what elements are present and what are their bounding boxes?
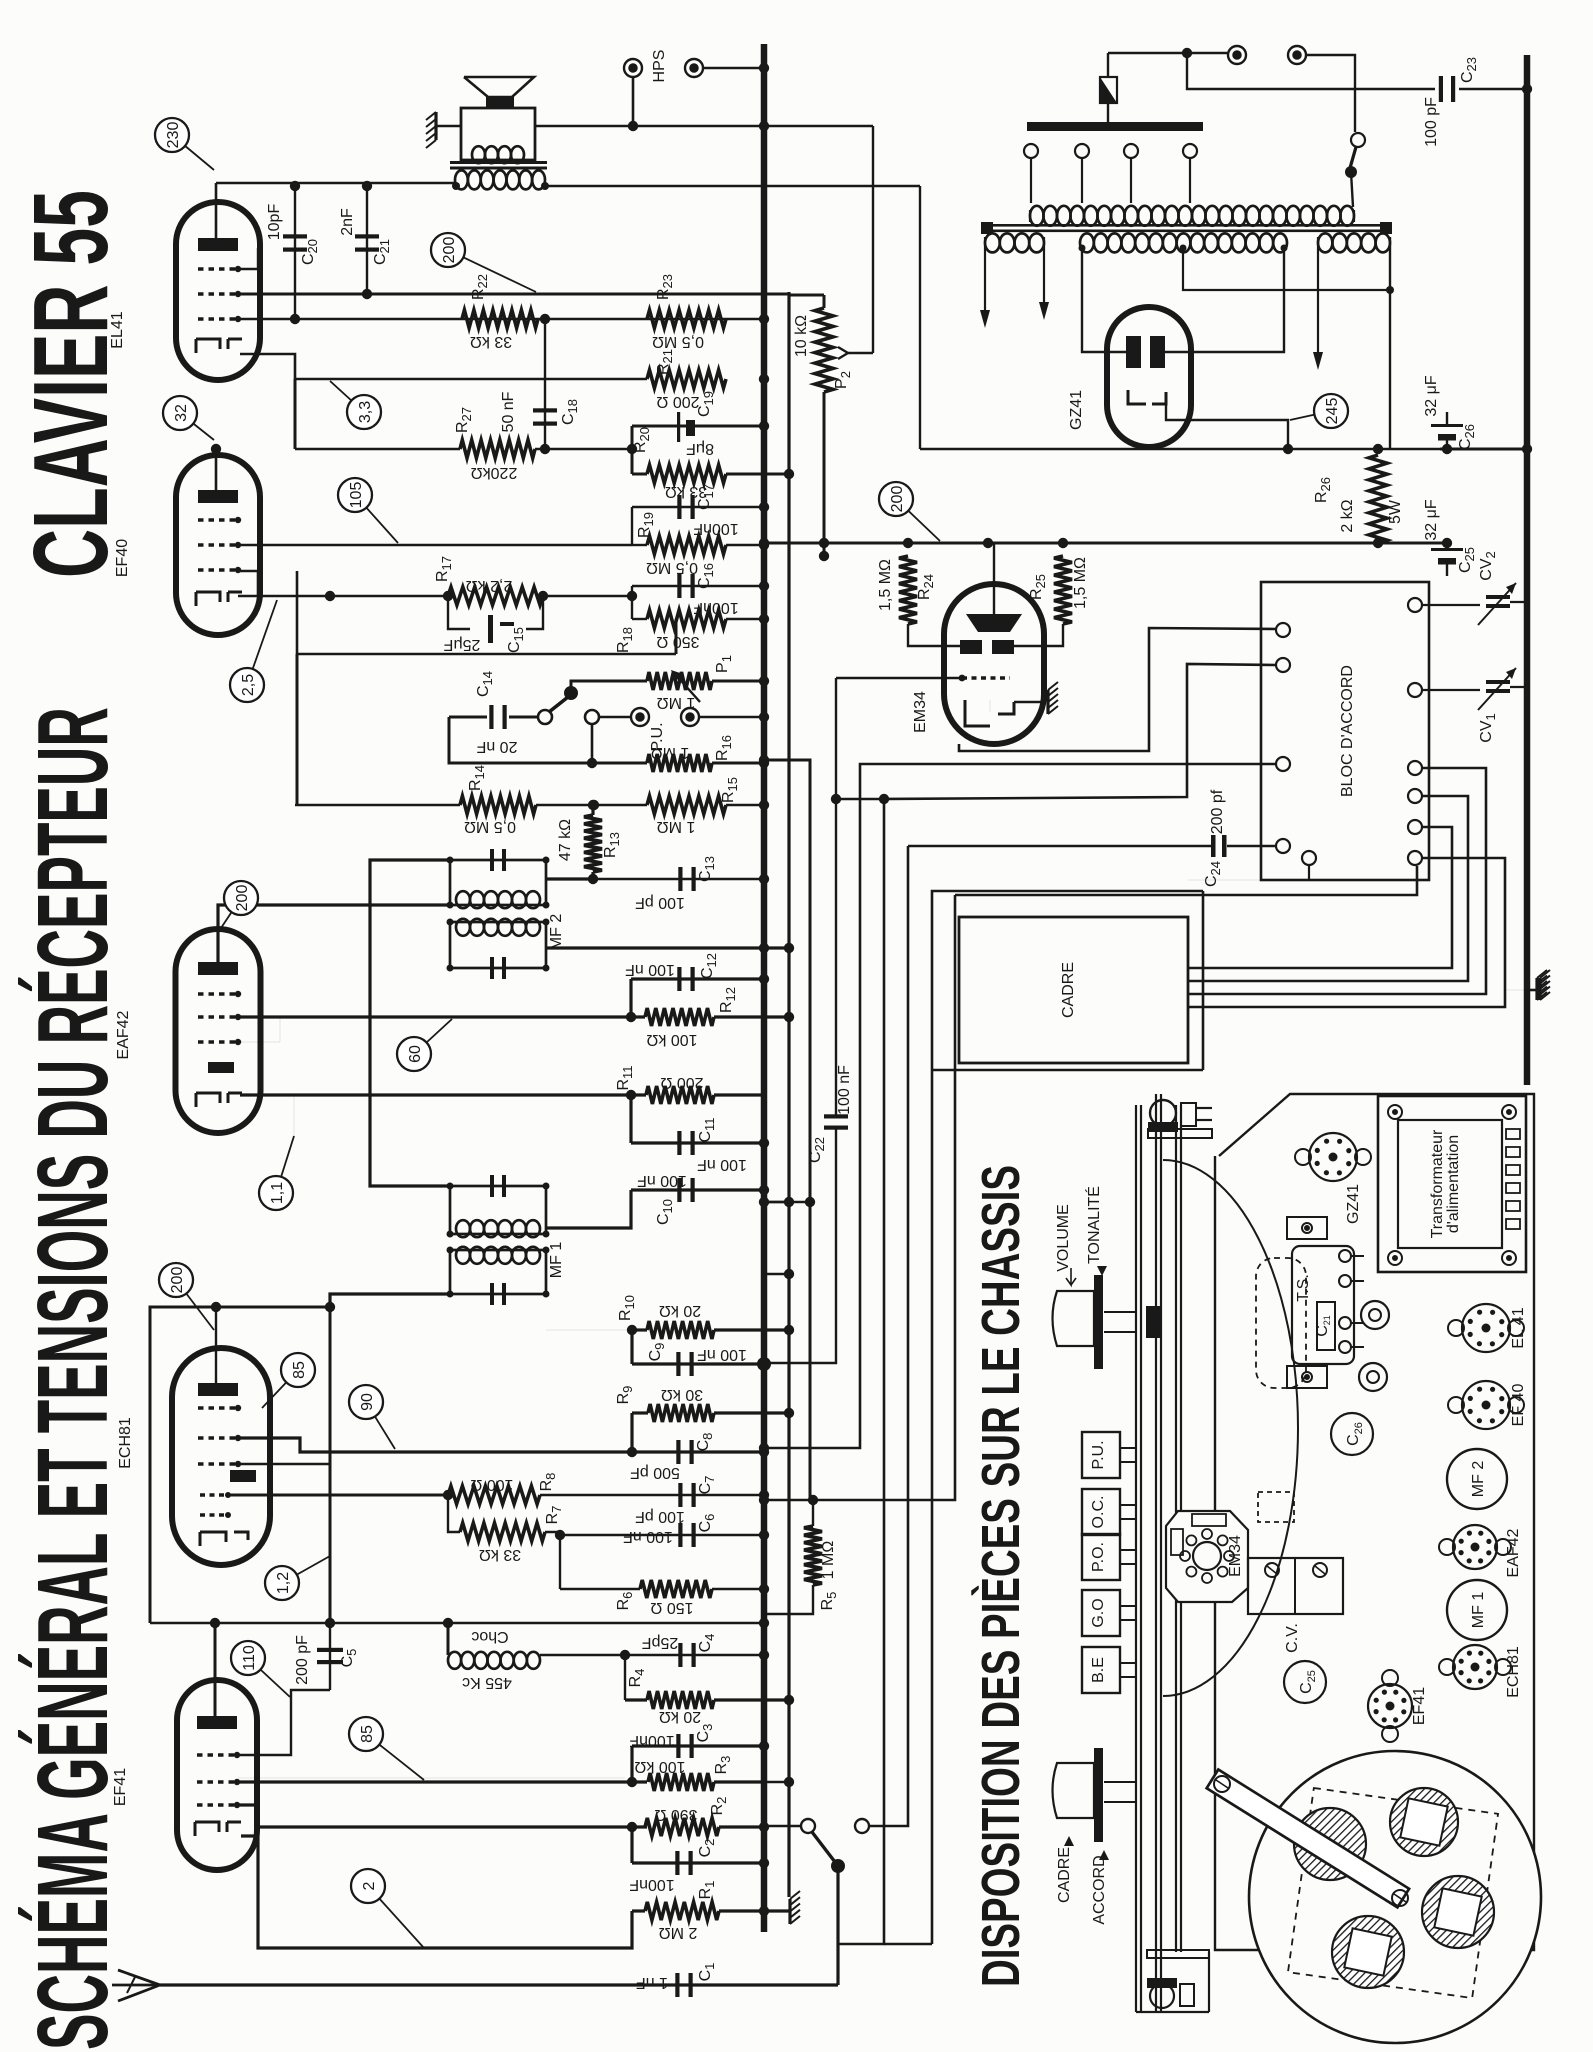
svg-text:2,5: 2,5 [240, 674, 257, 696]
svg-text:50 nF: 50 nF [500, 391, 517, 432]
svg-text:455 Kc: 455 Kc [462, 1674, 512, 1691]
wire HPS row [535, 121, 873, 131]
svg-text:20 kΩ: 20 kΩ [659, 1302, 701, 1319]
wire bundle E [869, 846, 908, 1826]
label EM34 chassis [1227, 1535, 1244, 1577]
transformer MF2 secondary [447, 919, 550, 980]
svg-text:200: 200 [169, 1267, 186, 1294]
wire cathode row [295, 374, 769, 384]
label CV chassis [1284, 1623, 1301, 1653]
ground speaker [426, 112, 461, 148]
wire bundle C [836, 664, 1276, 1944]
speaker dashed square [1288, 1788, 1498, 1998]
wire R27 row [295, 448, 632, 451]
chassis rail 3 [1176, 1105, 1181, 1952]
box bloc accord [1261, 582, 1429, 880]
button O.C. [1082, 1489, 1136, 1535]
wire ECH81 g row [238, 1463, 330, 1466]
svg-text:390 Ω: 390 Ω [654, 1806, 697, 1823]
wire R15 row [589, 800, 769, 810]
svg-text:350 Ω: 350 Ω [656, 633, 699, 650]
voltage 3,3 [330, 381, 381, 429]
voltage 200 ech [159, 1263, 214, 1330]
capacitor C3 [629, 1724, 769, 1758]
wire MF2 tap [546, 877, 593, 880]
resistor R6 [560, 1580, 769, 1616]
svg-text:90: 90 [359, 1393, 376, 1411]
svg-text:200: 200 [889, 486, 906, 513]
wire box R20 [627, 421, 794, 479]
antenna [112, 1970, 160, 2001]
svg-text:0,5 MΩ: 0,5 MΩ [464, 818, 516, 835]
svg-text:d'alimentation: d'alimentation [1445, 1135, 1462, 1233]
plate EM34 chassis [1166, 1511, 1248, 1602]
svg-text:GZ41: GZ41 [1068, 390, 1085, 430]
resistor R15 [647, 777, 740, 835]
terminal bloc R2 [1408, 683, 1422, 697]
voltage 200 eaf [221, 881, 258, 928]
wire bundle B [759, 755, 815, 1498]
wire bloc bottom [1188, 879, 1309, 881]
wire cadre outer [884, 891, 1203, 1944]
wire EF40 screen row [297, 571, 676, 654]
svg-text:245: 245 [1324, 398, 1341, 425]
wire EF41 g2 row [238, 1777, 625, 1779]
label EL41 [109, 311, 126, 348]
resistor R4 [625, 1669, 794, 1725]
transformer sec heater [985, 233, 1044, 252]
svg-text:110: 110 [241, 1645, 258, 1671]
voltage 60 [397, 1019, 452, 1071]
transformer core [981, 222, 1392, 234]
label EAF42 [115, 1010, 132, 1059]
svg-text:32: 32 [173, 404, 190, 422]
voltage 2 [351, 1869, 424, 1948]
wire EL41 g3 [236, 248, 258, 269]
capacitor C6 [560, 1514, 769, 1547]
svg-text:B.E: B.E [1090, 1657, 1107, 1683]
svg-text:2: 2 [361, 1881, 378, 1890]
wire GZ41 cathode [1166, 392, 1288, 449]
wire mains right [1187, 53, 1384, 89]
svg-text:1,5 MΩ: 1,5 MΩ [877, 559, 894, 611]
svg-text:100 kΩ: 100 kΩ [634, 1758, 685, 1775]
svg-text:MF 2: MF 2 [1470, 1461, 1487, 1498]
svg-text:T.S.: T.S. [1295, 1274, 1312, 1302]
wire cadre out2 [1188, 796, 1468, 981]
voltage 2,5 [230, 600, 277, 702]
svg-text:200 Ω: 200 Ω [656, 393, 699, 410]
svg-text:47 kΩ: 47 kΩ [557, 819, 574, 861]
wire box R19 [632, 502, 769, 550]
resistor R18 [615, 610, 726, 653]
wire MF2 prim left [218, 905, 450, 962]
transformer selector bar [1027, 122, 1203, 131]
capacitor C22 [759, 1114, 848, 1368]
box transfo alim [1378, 1096, 1526, 1272]
wire EF41 g3 row [238, 1805, 258, 1827]
svg-text:200 Ω: 200 Ω [660, 1074, 703, 1091]
label CV2 [1478, 551, 1498, 580]
circle C25 chassis [1284, 1661, 1326, 1703]
transformer MF1 primary [447, 1175, 550, 1238]
label EF41b [112, 1768, 129, 1806]
tube GZ41 heater [1128, 390, 1166, 404]
chassis rail 2 [1156, 1094, 1161, 2012]
svg-text:EAF42: EAF42 [1505, 1528, 1522, 1577]
terminal bloc R3 [1408, 761, 1422, 775]
svg-text:EM34: EM34 [912, 691, 929, 733]
title main 2 [11, 190, 130, 578]
resistor R26 [1313, 455, 1404, 543]
svg-text:100 nF: 100 nF [697, 1346, 747, 1363]
dial plate dashed [1256, 1258, 1306, 1388]
terminal bloc R1 [1408, 598, 1422, 612]
wire C3 drop [630, 1746, 633, 1782]
button P.U. [1082, 1432, 1136, 1478]
svg-text:Transformateur: Transformateur [1429, 1129, 1446, 1238]
svg-text:O.C.: O.C. [1090, 1496, 1107, 1529]
tube EAF42 internals [196, 962, 242, 1107]
svg-text:105: 105 [348, 482, 365, 509]
capacitor CV1 [1422, 668, 1527, 710]
capacitor C2 [629, 1827, 769, 1893]
resistor R19 [636, 512, 726, 576]
svg-text:33 kΩ: 33 kΩ [470, 333, 512, 350]
terminal bloc L1 [1276, 623, 1290, 637]
capacitor C1 [636, 1963, 717, 1997]
capacitor C16 [677, 563, 738, 616]
wire wiper riser [872, 126, 874, 353]
svg-text:MF 1: MF 1 [548, 1242, 565, 1279]
capacitor C24 [908, 789, 1276, 887]
chassis outline [1215, 1094, 1534, 1950]
svg-text:2,2 kΩ: 2,2 kΩ [466, 577, 513, 594]
wire cadre out4 [1188, 858, 1505, 1007]
svg-text:8μF: 8μF [686, 440, 714, 457]
label MF1 [548, 1242, 565, 1279]
wire row 1623 [150, 1618, 769, 1628]
label volume [1055, 1204, 1076, 1285]
wire R3 row [238, 1777, 647, 1787]
capacitor C25 [1431, 543, 1463, 576]
tube EAF42 diode [208, 1062, 234, 1073]
voltage 1,2 [265, 1556, 330, 1600]
label EF40 [114, 539, 131, 577]
OT primary [452, 170, 549, 190]
svg-text:TONALITÉ: TONALITÉ [1084, 1186, 1103, 1264]
voltage 32 [163, 396, 214, 440]
svg-text:1 MΩ: 1 MΩ [820, 1541, 837, 1580]
mains switch sel [1306, 55, 1365, 207]
label C22 [807, 1065, 853, 1163]
svg-text:DISPOSITION DES PIÈCES SUR LE: DISPOSITION DES PIÈCES SUR LE CHASSIS [971, 1165, 1031, 1987]
svg-text:ECH81: ECH81 [1505, 1646, 1522, 1698]
wire GZ41 anode right [1165, 248, 1284, 352]
label GZ41 chassis [1345, 1184, 1362, 1224]
label HPS [651, 50, 668, 83]
ground symbol bottom [764, 1197, 800, 1924]
label ECH81 [117, 1417, 134, 1469]
terminal bloc R4 [1408, 789, 1422, 803]
button P.O. [1082, 1534, 1136, 1580]
label CV1 [1478, 713, 1498, 742]
resistor R11 [240, 1065, 764, 1104]
wire R8 row [228, 1490, 453, 1500]
svg-text:20 nF: 20 nF [476, 738, 517, 755]
label cadre [1060, 962, 1077, 1018]
wire left col drop1 [296, 654, 299, 805]
capacitor C15 [443, 615, 526, 653]
arrow heater 2 [1039, 248, 1049, 320]
wire switch drop [836, 1866, 839, 1985]
socket EL41 chassis [1448, 1304, 1527, 1352]
svg-text:200 pf: 200 pf [1209, 789, 1226, 834]
can MF2 [1447, 1449, 1507, 1509]
svg-text:MF 1: MF 1 [1470, 1592, 1487, 1629]
svg-text:CADRE: CADRE [1060, 962, 1077, 1018]
voice coil [472, 146, 524, 163]
wire GZ41 anode left [1082, 248, 1126, 352]
wire PU drop [591, 724, 594, 763]
wire P1 left [671, 670, 700, 702]
svg-text:500 pF: 500 pF [630, 1464, 680, 1481]
voltage 85 ef41 [349, 1717, 424, 1780]
speaker cone [464, 77, 534, 108]
speaker frame [461, 108, 535, 160]
wire C5 to g1 [238, 1690, 330, 1755]
svg-text:200: 200 [234, 885, 251, 912]
dial lamp top [1148, 1100, 1212, 1138]
inductor choke [448, 1623, 625, 1691]
capacitor C4 [625, 1634, 769, 1667]
box CV chassis [1248, 1492, 1343, 1614]
wire EF40 cath row [238, 591, 632, 601]
wire R23R21 right [726, 318, 764, 320]
resistor R10 [617, 1295, 789, 1339]
svg-text:2 MΩ: 2 MΩ [659, 1924, 698, 1941]
svg-text:EL 41: EL 41 [1510, 1307, 1527, 1348]
transformer MF2 primary [447, 849, 550, 909]
tube ECH81 anode2 [230, 1470, 256, 1482]
fuse [1100, 48, 1228, 123]
svg-text:CADRE: CADRE [1056, 1847, 1073, 1903]
svg-text:20 kΩ: 20 kΩ [659, 1708, 701, 1725]
tube GZ41 [1107, 307, 1191, 447]
wire 200 row [759, 538, 1440, 548]
capacitor C14 [449, 705, 538, 729]
capacitor C7 [540, 1476, 769, 1525]
title chassis [971, 1165, 1031, 1987]
wire box R18 [627, 581, 769, 624]
svg-text:100 pF: 100 pF [1423, 97, 1440, 147]
capacitor C20 [283, 181, 307, 319]
capacitor C23 [1384, 57, 1532, 147]
wire P1 drop [675, 619, 678, 654]
can MF1 [1447, 1580, 1507, 1640]
wire row 449 [920, 444, 1440, 454]
transfo tabs [1506, 1129, 1520, 1229]
svg-text:0,5 MΩ: 0,5 MΩ [652, 333, 704, 350]
bracket TS [1287, 1217, 1354, 1388]
capacitor C9 [632, 1330, 771, 1376]
tube EAF42 [176, 929, 261, 1133]
svg-text:10 kΩ: 10 kΩ [793, 315, 810, 357]
ground symbol right rail [1527, 970, 1550, 1000]
svg-text:5W: 5W [1387, 499, 1404, 524]
terminal bloc L2 [1276, 658, 1290, 672]
wire bundle F [759, 895, 955, 1505]
washer 1 [1361, 1301, 1389, 1329]
resistor R1 [632, 1881, 769, 1941]
socket ECH81 chassis [1439, 1645, 1522, 1698]
voltage 230 [155, 118, 214, 170]
wire EL41 screen drop [294, 379, 297, 449]
capacitor CV2 [1422, 583, 1527, 625]
label MF2 [548, 914, 565, 951]
svg-text:EF40: EF40 [114, 539, 131, 577]
svg-text:EF41: EF41 [1411, 1687, 1428, 1725]
label C21 [339, 208, 392, 265]
wire bundle F2 [955, 866, 1417, 895]
wire R9 row [239, 1438, 637, 1457]
ground R1 [241, 1836, 632, 1948]
wire EF41 anode up [210, 1618, 220, 1716]
capacitor C11 [631, 1117, 769, 1173]
terminal PU open [585, 710, 599, 724]
resistor R25 [1012, 556, 1089, 646]
terminal HPS 1 [624, 59, 642, 126]
svg-text:100nF: 100nF [629, 1876, 675, 1893]
button B.E [1082, 1647, 1136, 1693]
svg-text:BLOC D'ACCORD: BLOC D'ACCORD [1339, 665, 1356, 797]
resistor R23 [647, 274, 726, 350]
wire C14 left [449, 717, 647, 768]
resistor R3 [634, 1756, 764, 1791]
svg-text:85: 85 [291, 1361, 308, 1379]
svg-text:ACCORD: ACCORD [1091, 1855, 1108, 1924]
tube EF40 [176, 455, 260, 635]
voltage 85 ech [262, 1353, 315, 1408]
wire R6 drop [555, 1530, 565, 1589]
switch mains [764, 1819, 869, 1873]
label C18 [500, 391, 580, 432]
dial circle [1163, 1160, 1298, 1696]
ground rail [787, 292, 790, 1897]
wire OT left [216, 182, 456, 185]
chassis rail 1 [1136, 1105, 1141, 2012]
resistor R7 [448, 1495, 564, 1563]
svg-text:C.V.: C.V. [1284, 1623, 1301, 1653]
mains terminal 1 [1228, 46, 1246, 64]
svg-text:200: 200 [441, 237, 458, 264]
capacitor C17 [677, 484, 738, 537]
label GZ41 [1068, 390, 1085, 430]
wire EM34 k out [959, 628, 1276, 751]
label C25 [1423, 499, 1477, 573]
wire ECH81 anode up [211, 1302, 221, 1383]
wire mains riser [919, 186, 921, 449]
tube EM34 [944, 584, 1044, 744]
label C20 [266, 204, 320, 265]
resistor R27 [454, 407, 535, 481]
dial lamp bottom [1147, 1950, 1209, 2008]
wire OT right [545, 185, 920, 188]
button G.O [1082, 1590, 1136, 1636]
svg-text:CLAVIER 55: CLAVIER 55 [11, 190, 130, 578]
label tonalite [1084, 1186, 1107, 1276]
svg-text:2nF: 2nF [339, 208, 356, 236]
tube GZ41 anodes [1126, 336, 1165, 368]
svg-text:GZ41: GZ41 [1345, 1184, 1362, 1224]
svg-text:EF 40: EF 40 [1510, 1384, 1527, 1427]
tube EM34 cathode [965, 700, 1014, 726]
wire EL41 cathode [240, 354, 295, 379]
tube ECH81 [172, 1348, 270, 1565]
wire C12 row [631, 974, 769, 1017]
wire ECH81 box [150, 1302, 335, 1623]
potentiometer P1 [647, 655, 769, 711]
speaker pole 2 [1390, 1788, 1458, 1856]
capacitor C26 [1431, 412, 1463, 449]
tube ECH81 grids2 [200, 1492, 231, 1518]
terminal PU jack1 [599, 708, 649, 726]
svg-text:EM34: EM34 [1227, 1535, 1244, 1577]
socket EF41 chassis [1368, 1670, 1428, 1742]
transformer primary [1030, 206, 1354, 226]
svg-text:EL41: EL41 [109, 311, 126, 348]
speaker pole 3 [1422, 1876, 1494, 1948]
resistor R14 [460, 765, 536, 835]
wire right rail [1524, 55, 1531, 1085]
wire EF40 anode [211, 444, 221, 490]
transformer sec GZ [1318, 233, 1394, 449]
washer 2 [1359, 1363, 1387, 1391]
knob tuning [1053, 1748, 1137, 1842]
terminal bloc L3 [1276, 757, 1290, 771]
tube EM34 anodes [960, 640, 1014, 654]
wire MF2 sec out [546, 943, 794, 953]
svg-text:100 pF: 100 pF [635, 1508, 685, 1525]
label PU [649, 722, 666, 751]
svg-text:220kΩ: 220kΩ [471, 464, 518, 481]
svg-text:0,5 MΩ: 0,5 MΩ [646, 559, 698, 576]
wire GZ heat drop [1389, 290, 1391, 449]
tube EL41 [176, 202, 260, 380]
terminal bloc R5 [1408, 820, 1422, 834]
resistor R5 [764, 1498, 839, 1614]
wire R14 row [295, 804, 594, 807]
OT core [450, 161, 547, 170]
wire switch contact [869, 1825, 908, 1827]
svg-text:30 kΩ: 30 kΩ [661, 1386, 703, 1403]
svg-text:1,2: 1,2 [275, 1572, 292, 1594]
svg-text:2 kΩ: 2 kΩ [1339, 499, 1356, 532]
label C14 [475, 671, 517, 755]
capacitor C13 [593, 856, 769, 911]
capacitor C8 [630, 1433, 769, 1481]
potentiometer P2 [815, 295, 833, 561]
svg-text:HPS: HPS [651, 50, 668, 83]
svg-text:1 MΩ: 1 MΩ [651, 744, 690, 761]
svg-text:1,1: 1,1 [269, 1182, 286, 1204]
svg-text:33 kΩ: 33 kΩ [479, 1546, 521, 1563]
arrow heater 3 [1313, 248, 1323, 370]
svg-text:3,3: 3,3 [357, 401, 374, 423]
svg-text:1 nF: 1 nF [636, 1974, 668, 1991]
resistor R8 [448, 1473, 558, 1504]
svg-text:SCHÉMA GÉNÉRAL ET TENSIONS DU: SCHÉMA GÉNÉRAL ET TENSIONS DU RÉCEPTEUR [18, 707, 130, 2050]
